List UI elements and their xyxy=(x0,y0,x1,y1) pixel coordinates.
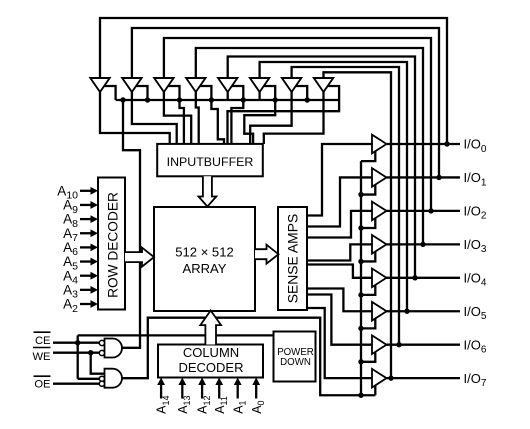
wire sense amp to buffer U13 xyxy=(307,265,372,278)
wire sense amp to buffer U14 xyxy=(307,289,372,312)
svg-text:COLUMN: COLUMN xyxy=(183,345,239,360)
wire net I/O7 to input buffer (top line 8) xyxy=(324,72,392,378)
wire WE branch to gate G2 xyxy=(91,353,105,374)
wire data U4 stub descent xyxy=(211,100,224,144)
junction enable stub U3 on bus xyxy=(177,97,182,102)
block SENSE AMPS xyxy=(278,207,307,310)
wire I/O4 output line xyxy=(387,277,461,279)
wire enable stub of input buffer U4 xyxy=(196,86,212,100)
wire sense amp to buffer U16 xyxy=(307,308,372,378)
wire sense amp to buffer U11 xyxy=(307,211,372,238)
wire data U3 stub descent xyxy=(180,100,184,144)
svg-text:DOWN: DOWN xyxy=(280,357,311,368)
wire net I/O4 to input buffer (top line 5) xyxy=(228,57,415,278)
arrow column decoder to array xyxy=(200,311,221,345)
wire enable hook U10 xyxy=(361,180,375,194)
gate G2 output enable xyxy=(105,369,123,388)
wire I/O5 output line xyxy=(387,310,461,312)
svg-text:SENSE AMPS: SENSE AMPS xyxy=(285,214,301,304)
wire data U4 apex descent xyxy=(196,92,199,144)
wire WE input xyxy=(53,352,99,354)
block INPUTBUFFER xyxy=(157,144,263,176)
junction enable stub U5 on bus xyxy=(241,97,246,102)
junction enable stub U7 on bus xyxy=(305,97,310,102)
wire data U8 apex descent xyxy=(264,92,324,144)
input buffer U6 xyxy=(250,78,269,92)
wire enable stub of input buffer U1 xyxy=(100,86,116,100)
wire data U1 apex to input buffer box xyxy=(100,92,170,144)
wire CE branch vertical xyxy=(78,335,100,378)
wire data U6 apex stub xyxy=(258,92,260,100)
output buffer U11 xyxy=(372,202,387,221)
block 512x512 ARRAY xyxy=(154,207,255,311)
output buffer U10 xyxy=(372,168,387,187)
wire OE input xyxy=(53,383,99,385)
arrow input buffer to array xyxy=(199,176,217,206)
arrow array to sense amps xyxy=(255,245,279,264)
wire enable hook U12 xyxy=(361,247,375,261)
input buffer U3 xyxy=(154,78,173,92)
junction output enable to G2 line xyxy=(358,393,363,398)
wire I/O0 output line xyxy=(387,143,461,145)
wire enable hook stub U16 xyxy=(374,381,376,395)
wire I/O7 output line xyxy=(387,377,461,379)
wire output-enable vertical xyxy=(360,161,362,395)
input buffer U4 xyxy=(186,78,205,92)
block COLUMN DECODER xyxy=(158,345,263,378)
svg-text:CE: CE xyxy=(35,335,51,347)
output buffer U9 xyxy=(372,135,387,154)
svg-text:ROW DECODER: ROW DECODER xyxy=(106,192,121,298)
wire sense amp to buffer U12 xyxy=(307,244,372,260)
svg-text:INPUTBUFFER: INPUTBUFFER xyxy=(167,155,254,169)
wire I/O1 output line xyxy=(387,176,461,178)
wire write-enable bus xyxy=(116,99,340,101)
arrow row decoder to array xyxy=(125,248,154,267)
svg-text:512 × 512: 512 × 512 xyxy=(175,244,233,259)
block ROW DECODER xyxy=(98,178,125,310)
wire enable stub of input buffer U5 xyxy=(228,86,244,100)
wire enable stub of input buffer U6 xyxy=(260,86,276,100)
input buffer U2 xyxy=(122,78,141,92)
input buffer U5 xyxy=(218,78,237,92)
input buffer U7 xyxy=(282,78,301,92)
svg-text:OE: OE xyxy=(34,379,50,391)
wire bus end descent xyxy=(228,100,340,144)
wire net I/O1 to input buffer (top line 2) xyxy=(132,28,439,177)
junction enable stub U6 on bus xyxy=(273,97,278,102)
junction enable stub U4 on bus xyxy=(209,97,214,102)
wire enable hook U14 xyxy=(361,314,375,328)
output buffer U16 xyxy=(372,369,387,388)
wire I/O3 output line xyxy=(387,243,461,245)
wire sense amp to buffer U10 xyxy=(307,177,372,226)
block POWER DOWN xyxy=(274,332,316,382)
junction gate G1 feed tap on bus xyxy=(120,97,125,102)
wire data U2 apex to input buffer box xyxy=(132,92,177,144)
gate G1 write enable xyxy=(105,339,123,358)
output buffer U13 xyxy=(372,269,387,288)
wire enable stub of input buffer U7 xyxy=(292,86,308,100)
wire I/O2 output line xyxy=(387,210,461,212)
wire net I/O0 to input buffer (top line 1) xyxy=(100,18,447,144)
wire data U6 stub descent xyxy=(244,100,275,144)
wire CE input xyxy=(53,342,99,344)
input buffer U8 xyxy=(314,78,333,92)
junction enable stub U2 on bus xyxy=(145,97,150,102)
wire data U3 apex descent xyxy=(164,92,191,144)
svg-text:WE: WE xyxy=(32,351,50,363)
wire enable stub of input buffer U8 xyxy=(324,86,340,100)
wire net I/O3 to input buffer (top line 4) xyxy=(196,48,423,244)
wire net I/O5 to input buffer (top line 6) xyxy=(260,62,407,311)
wire data U5 stub descent xyxy=(231,100,243,144)
wire data U7 apex descent xyxy=(250,92,291,144)
wire enable hook U11 xyxy=(361,214,375,228)
wire I/O6 output line xyxy=(387,344,461,346)
wire net I/O6 to input buffer (top line 7) xyxy=(292,67,399,345)
wire enable hook U9 xyxy=(361,147,375,161)
wire enable hook U15 xyxy=(361,348,375,362)
wire enable stub of input buffer U2 xyxy=(132,86,148,100)
output buffer U15 xyxy=(372,335,387,354)
wire sense amp to buffer U15 xyxy=(307,295,372,345)
wire data U5 apex stub xyxy=(227,92,229,100)
wire enable hook U13 xyxy=(361,281,375,295)
output buffer U12 xyxy=(372,235,387,254)
wire gate G2 output enable staircase xyxy=(122,318,375,396)
svg-text:DECODER: DECODER xyxy=(178,360,243,375)
junction WE branch xyxy=(88,350,93,355)
wire net I/O2 to input buffer (top line 3) xyxy=(164,38,431,211)
wire enable stub of input buffer U3 xyxy=(164,86,180,100)
svg-text:ARRAY: ARRAY xyxy=(183,261,227,276)
wire sense amp to buffer U9 xyxy=(307,144,372,216)
input buffer U1 xyxy=(90,78,109,92)
wire gate G1 output to write-enable bus xyxy=(122,100,140,348)
junction CE branch xyxy=(75,340,80,345)
output buffer U14 xyxy=(372,302,387,321)
wire CE to power down xyxy=(78,334,274,336)
